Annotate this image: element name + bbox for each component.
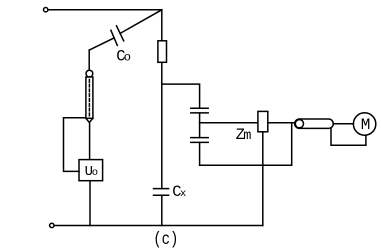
svg-text:(c): (c)	[153, 230, 178, 250]
svg-text:o: o	[124, 51, 131, 65]
svg-text:x: x	[180, 188, 186, 200]
svg-text:o: o	[92, 167, 98, 179]
svg-text:M: M	[361, 116, 371, 134]
svg-text:m: m	[243, 129, 251, 144]
